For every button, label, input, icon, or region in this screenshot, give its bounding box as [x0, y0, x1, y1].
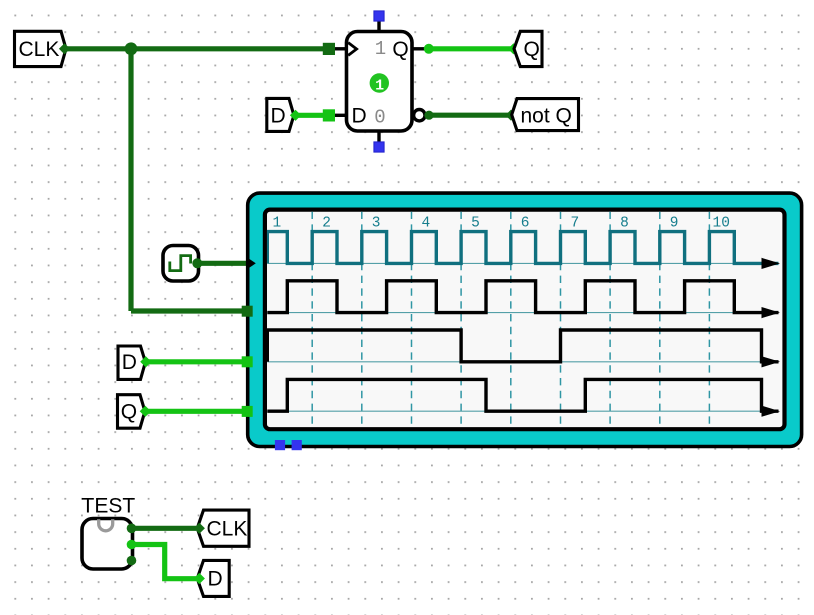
svg-text:CLK: CLK: [19, 38, 60, 61]
wire TEST to D label: [132, 545, 197, 579]
svg-text:6: 6: [521, 216, 530, 232]
TEST pin2 dot: [127, 540, 137, 550]
graph component outer frame: [248, 193, 802, 446]
svg-text:1: 1: [375, 77, 384, 94]
node D bottom diamond: [194, 573, 205, 584]
clock glyph: [170, 256, 191, 271]
row baselines: [267, 263, 778, 411]
output label CLK (bottom): [197, 510, 249, 546]
svg-text:0: 0: [374, 107, 385, 129]
top pin blue square: [374, 11, 384, 21]
D pin stub: [333, 114, 347, 117]
node CLK pin diamond: [59, 43, 70, 54]
wire TEST to CLK label: [132, 526, 197, 531]
svg-text:Q: Q: [392, 38, 408, 61]
svg-text:TEST: TEST: [82, 495, 136, 518]
wire D label to flip-flop: [297, 113, 323, 118]
notQ output dot: [424, 111, 433, 120]
wire notQ to label: [430, 113, 509, 118]
cycle numbers: [273, 216, 730, 232]
clock generator component: [163, 246, 199, 282]
wire junction vertical down: [128, 49, 133, 311]
cycle gridlines dashed: [312, 212, 709, 428]
graph bottom blue square 2: [292, 440, 302, 450]
bottom pin blue square: [374, 142, 384, 152]
clock output dot: [192, 258, 202, 268]
wire CLK label to flip-flop clock: [64, 46, 324, 51]
svg-text:1: 1: [375, 38, 386, 60]
node notQ diamond: [505, 110, 516, 121]
waveform row3 D: [267, 330, 778, 362]
node CLK bottom diamond: [194, 523, 205, 534]
wire D to graph: [147, 359, 242, 364]
input label CLK: [15, 31, 67, 66]
svg-text:8: 8: [620, 216, 629, 232]
bottom unconnected pin stub: [377, 130, 380, 143]
TEST pin1 dot: [127, 524, 137, 534]
TEST component body: [82, 519, 133, 570]
waveform row1 clock: [267, 232, 778, 264]
top unconnected pin stub: [377, 20, 380, 32]
node junction dot: [125, 42, 138, 55]
svg-text:D: D: [352, 105, 367, 128]
Q input label (graph): [118, 395, 145, 429]
graph bottom blue square 1: [275, 440, 285, 450]
svg-text:CLK: CLK: [207, 517, 248, 540]
wire Q to label: [430, 46, 512, 51]
svg-text:7: 7: [571, 216, 580, 232]
state indicator circle: [370, 73, 389, 92]
graph row3 connector square: [242, 356, 253, 367]
node Q diamond: [508, 43, 519, 54]
notQ inversion bubble: [414, 110, 425, 121]
svg-text:9: 9: [670, 216, 679, 232]
clock pin connector square: [323, 43, 335, 55]
node Q graph diamond: [140, 406, 151, 417]
svg-text:not Q: not Q: [521, 104, 572, 127]
flip-flop U1 body: [347, 32, 413, 132]
graph row2 connector square: [242, 306, 253, 317]
svg-text:5: 5: [471, 216, 480, 232]
svg-text:10: 10: [713, 216, 730, 232]
TEST pin3 dot: [127, 556, 137, 566]
wire horizontal into graph row2: [131, 308, 246, 313]
row axis arrows: [762, 258, 781, 417]
node D graph diamond: [140, 356, 151, 367]
D input label (graph): [118, 346, 145, 379]
wire Q to graph: [147, 409, 243, 414]
graph clock-in triangle: [248, 258, 256, 268]
clock edge triangle: [348, 43, 356, 56]
wire clock to graph: [198, 261, 247, 266]
svg-text:2: 2: [322, 216, 331, 232]
svg-text:4: 4: [422, 216, 431, 232]
node D pin diamond: [290, 110, 301, 121]
waveform row2 CLK net: [267, 281, 778, 313]
graph row4 connector square: [242, 406, 253, 417]
output label D (bottom): [197, 560, 229, 596]
Q output dot: [424, 44, 434, 54]
svg-text:D: D: [122, 351, 137, 374]
svg-text:D: D: [208, 568, 223, 591]
svg-text:3: 3: [372, 216, 381, 232]
waveform row4 Q: [267, 379, 778, 411]
D input label: [267, 98, 294, 131]
svg-text:Q: Q: [121, 400, 137, 423]
Q output pin stub: [412, 47, 426, 50]
svg-text:1: 1: [273, 216, 282, 232]
output label Q: [514, 31, 542, 66]
flip-flop clock pin stub: [333, 47, 347, 50]
svg-text:D: D: [271, 104, 286, 127]
svg-text:Q: Q: [524, 38, 540, 61]
D pin connector square: [323, 109, 335, 121]
output label not Q: [512, 99, 579, 131]
graph inner panel: [265, 210, 785, 430]
TEST icon arc: [99, 519, 113, 531]
